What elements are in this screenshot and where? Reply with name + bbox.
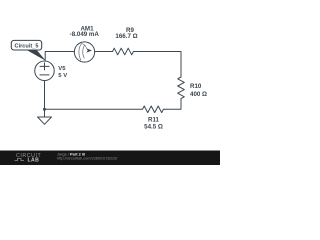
wire ammeter right to R9	[95, 51, 113, 53]
node A junction dot	[43, 108, 46, 111]
svg-text:54.5 Ω: 54.5 Ω	[144, 124, 163, 131]
resistor R10	[178, 77, 185, 100]
resistor R9	[113, 48, 135, 55]
svg-text:Circuit_5: Circuit_5	[15, 43, 39, 49]
ammeter AM1 arrowhead	[86, 48, 92, 52]
wire R10 bottom to corner to R11	[165, 100, 181, 109]
callout Circuit_5 box	[11, 40, 41, 50]
ammeter AM1 circle	[74, 42, 94, 62]
svg-text:400 Ω: 400 Ω	[190, 91, 207, 98]
wire node A to ground	[44, 109, 46, 117]
svg-text:166.7 Ω: 166.7 Ω	[115, 33, 137, 40]
footer bar	[0, 151, 220, 166]
V5 plus sign	[40, 63, 49, 70]
callout Circuit_5 tail	[26, 49, 46, 61]
wire V5 bottom to node A	[44, 81, 46, 110]
svg-text:V5: V5	[58, 66, 66, 72]
svg-text:R11: R11	[148, 116, 160, 123]
wire V5 top to corner	[45, 52, 74, 62]
svg-text:R10: R10	[190, 83, 202, 90]
svg-text:http://circuitlab.com/c36bh2r2: http://circuitlab.com/c36bh2r262c5/	[57, 155, 118, 160]
V5 minus sign	[40, 74, 49, 76]
footer CircuitLab logo wave	[15, 159, 25, 161]
wire R9 to top-right corner down to R10	[134, 52, 181, 78]
ground	[38, 117, 52, 124]
svg-text:-8.049 mA: -8.049 mA	[70, 31, 100, 38]
ammeter AM1 needle arcs	[79, 44, 87, 61]
svg-text:5 V: 5 V	[58, 73, 67, 79]
wire R11 to node A	[45, 108, 143, 110]
svg-text:LAB: LAB	[28, 158, 40, 164]
resistor R11	[143, 106, 165, 113]
voltage source V5 circle	[35, 61, 55, 81]
